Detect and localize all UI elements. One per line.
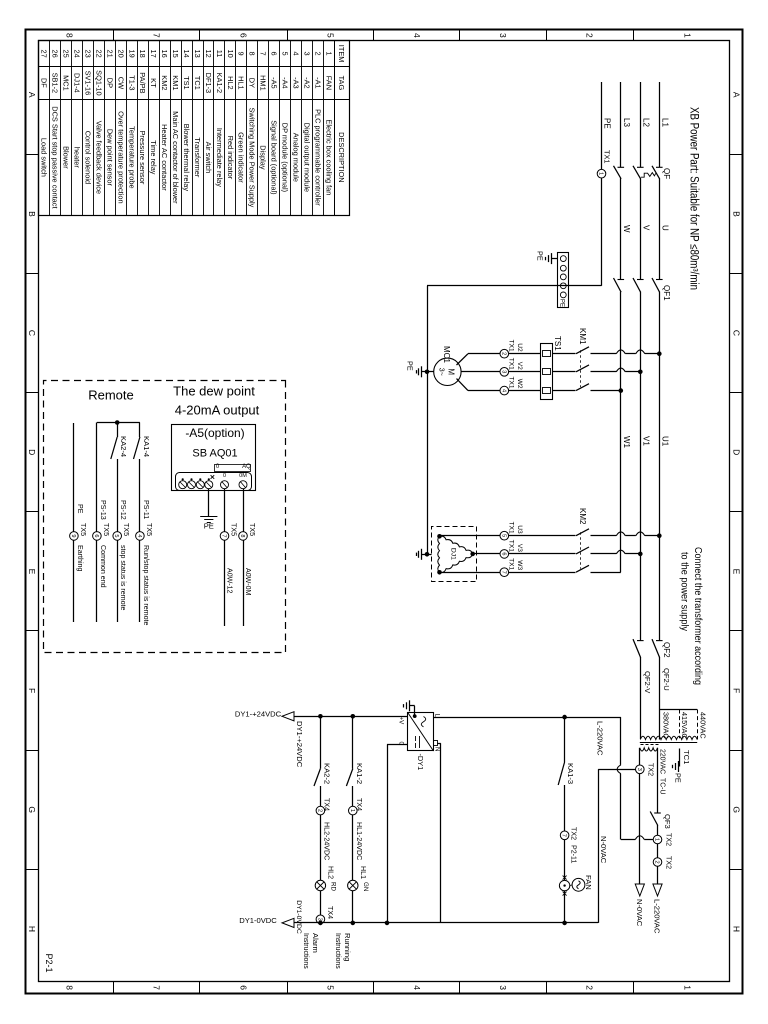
svg-text:-A5(option): -A5(option) (185, 426, 244, 440)
DY1 0V wire down (387, 744, 408, 746)
wire earthing a (73, 423, 75, 532)
junction dot 0V lamp1 (350, 921, 355, 926)
svg-text:5: 5 (326, 985, 336, 990)
svg-text:V3: V3 (516, 544, 523, 552)
svg-text:QF2: QF2 (662, 642, 671, 658)
svg-text:7: 7 (561, 834, 567, 837)
svg-text:2: 2 (654, 860, 660, 863)
svg-text:L-220VAC: L-220VAC (653, 899, 662, 934)
wire KA1-3 a (564, 717, 566, 762)
svg-text:KM1: KM1 (578, 328, 587, 345)
svg-text:TX1: TX1 (508, 340, 515, 352)
svg-text:DY1-0VDC: DY1-0VDC (239, 916, 277, 925)
column dividers (730, 154, 743, 156)
svg-text:Green indicator: Green indicator (237, 132, 246, 183)
svg-text:W1: W1 (622, 436, 631, 449)
svg-text:QF2-U: QF2-U (662, 668, 671, 691)
svg-text:L2: L2 (641, 118, 650, 127)
svg-text:MC1: MC1 (442, 346, 451, 363)
svg-text:TX5: TX5 (230, 523, 238, 536)
transformer core (640, 742, 697, 744)
svg-text:3: 3 (316, 918, 322, 921)
svg-text:TX2: TX2 (647, 763, 655, 776)
branch U2 hop over L2 (636, 350, 645, 354)
svg-text:0: 0 (223, 473, 226, 479)
wire fan to N (564, 891, 566, 923)
breaker QF2 pole U (656, 640, 663, 642)
svg-text:U1: U1 (660, 436, 669, 447)
svg-text:A0W-12: A0W-12 (226, 568, 234, 594)
svg-text:KA1-2: KA1-2 (355, 763, 364, 784)
svg-text:20: 20 (116, 49, 125, 57)
breaker QF pole L2 (637, 166, 644, 168)
terminal TX5-8 (239, 532, 248, 541)
svg-text:Blower thermal relay: Blower thermal relay (182, 124, 191, 192)
svg-text:TX5: TX5 (102, 523, 110, 536)
svg-text:KA1-4: KA1-4 (142, 436, 151, 457)
svg-text:N: N (434, 747, 441, 751)
terminal strip circles (560, 256, 566, 262)
terminal TX1-2 (500, 349, 509, 358)
svg-text:TAG: TAG (337, 76, 346, 91)
wire to motor 2 (461, 371, 500, 373)
motor MC1 circle (434, 358, 461, 385)
svg-text:DY1-+24VDC: DY1-+24VDC (235, 709, 282, 718)
A5 terminal 0 (221, 481, 229, 489)
svg-text:-A3: -A3 (292, 77, 301, 89)
junction dot KA1-3 (562, 715, 567, 720)
terminal TX4 lamp2 (316, 806, 325, 815)
svg-text:A0W-0M: A0W-0M (244, 568, 252, 596)
svg-text:heater: heater (73, 147, 82, 168)
branch U2 wire (645, 353, 660, 355)
svg-text:DY1-+24VDC: DY1-+24VDC (295, 721, 304, 768)
heater DJ1 winding (440, 536, 473, 554)
terminal TX2-2 (653, 858, 662, 867)
remote link (97, 422, 140, 424)
KM1 linkage (580, 350, 582, 387)
junction dot L1-U2 (657, 351, 662, 356)
svg-text:TX4: TX4 (326, 906, 334, 919)
svg-text:U2: U2 (516, 343, 523, 352)
wire 0V rail (294, 922, 441, 924)
wire run status a (139, 423, 141, 438)
svg-text:D: D (731, 449, 741, 455)
svg-text:Display: Display (259, 145, 268, 170)
wire lamp1 d (352, 891, 354, 923)
svg-text:Valve feedback device: Valve feedback device (94, 121, 103, 194)
svg-text:12: 12 (204, 49, 213, 57)
wire KA1-3 b (564, 785, 566, 831)
svg-text:1: 1 (654, 838, 660, 841)
svg-text:Instructions: Instructions (334, 933, 341, 969)
svg-text:19: 19 (127, 49, 136, 57)
relay contact KA2-2 (314, 769, 320, 786)
svg-text:V2: V2 (516, 362, 523, 370)
branch U3 hop over L2 (636, 532, 645, 536)
svg-text:4: 4 (412, 33, 422, 38)
terminal TX5-7 (220, 532, 229, 541)
svg-text:Main AC contactor of blower: Main AC contactor of blower (171, 111, 180, 204)
svg-text:PE: PE (603, 118, 612, 129)
svg-text:E: E (731, 569, 741, 575)
wire N to arrow (639, 774, 641, 884)
svg-text:DF1-3: DF1-3 (204, 73, 213, 94)
svg-text:Electric box cooling fan: Electric box cooling fan (324, 119, 333, 195)
junction dot L3-W2 (619, 388, 624, 393)
junction dot DJ1 PE (425, 552, 430, 557)
svg-text:TX2: TX2 (570, 827, 578, 840)
svg-text:Control solenoid: Control solenoid (84, 131, 93, 184)
A5 PE earth (200, 516, 217, 518)
remote dashed box (44, 381, 286, 653)
svg-text:1: 1 (598, 172, 604, 175)
wire stop status c (117, 540, 119, 622)
arrow N-0VAC (635, 884, 644, 896)
svg-text:4: 4 (412, 985, 422, 990)
DJ1 earth (422, 554, 427, 556)
svg-text:-A4: -A4 (281, 77, 290, 89)
DY1 PE dot (413, 714, 417, 718)
terminal TX1-1 (597, 169, 606, 178)
svg-text:KA1-2: KA1-2 (215, 73, 224, 94)
svg-text:KT: KT (149, 78, 158, 88)
svg-text:P2-1: P2-1 (44, 954, 54, 973)
wire tap 380 (659, 710, 661, 740)
DY1 PE wire (414, 706, 416, 716)
PE line (427, 286, 429, 555)
terminal TX5-5 (113, 532, 122, 541)
svg-text:A: A (731, 92, 741, 98)
wires TS1 to terminals (509, 353, 541, 355)
relay contact KA1-4 (134, 437, 140, 459)
svg-text:HL1: HL1 (237, 76, 246, 90)
svg-text:KM2: KM2 (578, 508, 587, 525)
svg-text:PE: PE (76, 504, 84, 514)
svg-text:Blower: Blower (62, 146, 71, 169)
svg-text:PS-13: PS-13 (99, 500, 107, 520)
svg-text:HL2: HL2 (327, 866, 335, 879)
junction dot 0V return (385, 921, 390, 926)
svg-text:FAN: FAN (324, 76, 333, 90)
svg-text:TX1: TX1 (508, 522, 515, 534)
fan link (570, 884, 572, 887)
lamp HL2 (315, 880, 325, 890)
svg-text:7: 7 (152, 985, 162, 990)
wire AQ 0 out (224, 540, 226, 626)
row dividers (633, 30, 635, 41)
svg-text:XB Power Part: Suitable for NP: XB Power Part: Suitable for NP ≤80m³/min (688, 107, 700, 290)
terminal TX4 lamp2 end (316, 915, 325, 924)
svg-text:PE: PE (536, 251, 545, 261)
svg-text:T1-3: T1-3 (127, 75, 136, 90)
wire PE drop (427, 285, 602, 287)
svg-text:PS-11: PS-11 (142, 500, 150, 519)
svg-text:M: M (447, 369, 456, 376)
svg-text:8: 8 (65, 985, 75, 990)
wire L3 (620, 82, 622, 167)
wire to motor 3 (468, 390, 500, 392)
svg-text:Temperature probe: Temperature probe (127, 126, 136, 188)
svg-text:TX1: TX1 (508, 358, 515, 370)
wire lamp1 b (352, 786, 354, 806)
svg-text:HL2: HL2 (226, 76, 235, 90)
svg-text:22: 22 (94, 49, 103, 57)
svg-text:+V: +V (398, 717, 405, 726)
terminal strip earth (551, 253, 553, 264)
svg-text:2: 2 (585, 985, 595, 990)
svg-text:F: F (27, 688, 37, 693)
svg-text:3: 3 (500, 370, 506, 373)
svg-text:HM1: HM1 (259, 75, 268, 91)
branch U3 wire (645, 535, 660, 537)
svg-text:TX1: TX1 (508, 540, 515, 552)
svg-text:PE: PE (406, 361, 415, 371)
svg-text:GN: GN (362, 882, 369, 891)
N rail horizontal (598, 769, 600, 923)
breaker QF3 (654, 812, 661, 814)
svg-text:C: C (731, 330, 741, 336)
svg-text:Load switch: Load switch (40, 138, 49, 177)
A5 terminal 0M (239, 481, 247, 489)
arrow DY1-0VDC (282, 918, 294, 927)
svg-text:TX1: TX1 (508, 558, 515, 570)
terminal TX1-3 (500, 368, 509, 377)
wire stop status a (117, 423, 119, 438)
svg-text:DJ1-4: DJ1-4 (73, 73, 82, 93)
wire run status b (139, 459, 141, 532)
svg-text:5: 5 (113, 534, 119, 537)
svg-text:PS-12: PS-12 (119, 500, 127, 520)
svg-text:14: 14 (182, 49, 191, 57)
KM2 linkage (580, 532, 582, 569)
contactor KM1 pole 3 (576, 384, 589, 391)
svg-text:L: L (434, 714, 441, 718)
svg-text:5: 5 (500, 534, 506, 537)
svg-text:TX2: TX2 (665, 833, 673, 846)
wires KM2 to terminals (509, 535, 576, 537)
wire 220V live (657, 748, 659, 813)
branch U3 hop over L3 (616, 532, 625, 536)
wire AQ 0M out (243, 540, 245, 626)
breaker QF1 pole L1 (656, 279, 663, 281)
svg-text:3~: 3~ (438, 368, 445, 376)
svg-text:16: 16 (160, 49, 169, 57)
svg-text:Running: Running (343, 933, 352, 961)
svg-text:PA/PB: PA/PB (138, 72, 147, 93)
wire live to arrow (657, 866, 659, 884)
svg-text:CW: CW (116, 77, 125, 89)
L rail down (434, 717, 621, 719)
svg-text:4: 4 (136, 534, 142, 537)
svg-text:stop status is remote: stop status is remote (119, 545, 127, 611)
svg-text:Over temperature protection: Over temperature protection (116, 111, 125, 203)
junction dot L2-V3 (638, 552, 643, 557)
BOM table grid (39, 41, 350, 216)
N branch down (598, 769, 635, 771)
svg-text:415VAC: 415VAC (680, 712, 689, 739)
svg-text:B: B (27, 211, 37, 217)
svg-text:HL2-24VDC: HL2-24VDC (323, 822, 331, 860)
svg-text:W3: W3 (516, 560, 523, 570)
svg-text:Digital output module: Digital output module (302, 123, 311, 192)
breaker QF2 pole V (637, 640, 644, 642)
svg-text:15: 15 (171, 49, 180, 57)
terminal TX2-1 (653, 835, 662, 844)
svg-text:2: 2 (313, 52, 322, 56)
svg-text:Connect the transformer accord: Connect the transformer according (692, 547, 703, 685)
wire lamp2 d (320, 891, 322, 915)
svg-text:8: 8 (65, 33, 75, 38)
terminal TX1-6 (500, 550, 509, 559)
svg-text:1: 1 (324, 52, 333, 56)
svg-text:RD: RD (330, 882, 337, 891)
junction dot lamp2 (318, 714, 323, 719)
DY1 N pin (434, 741, 438, 746)
wire to DJ1 corner1 (440, 535, 501, 537)
svg-text:Run/stop status is remote: Run/stop status is remote (142, 545, 150, 625)
wire lamp2 b (320, 786, 322, 806)
svg-text:Red indicator: Red indicator (226, 136, 235, 180)
wire common a (96, 423, 98, 532)
junction dot L1-U3 (657, 533, 662, 538)
svg-text:KA2-2: KA2-2 (323, 763, 332, 784)
svg-text:7: 7 (152, 33, 162, 38)
junction dot L2-V2 (638, 370, 643, 375)
transformer core dashed (640, 744, 659, 746)
N rail down (441, 922, 598, 924)
wire QF2-V (640, 657, 642, 739)
TC1 screen earth (679, 749, 681, 767)
svg-text:9: 9 (237, 52, 246, 56)
svg-text:KM1: KM1 (171, 75, 180, 90)
relay contact KA2-4 (111, 437, 117, 459)
svg-text:8: 8 (239, 534, 245, 537)
svg-text:10: 10 (226, 49, 235, 57)
svg-text:TX5: TX5 (145, 523, 153, 536)
svg-text:P2-11: P2-11 (570, 845, 578, 863)
svg-text:H: H (27, 926, 37, 932)
svg-text:Remote: Remote (88, 388, 134, 403)
svg-text:Earthing: Earthing (76, 545, 84, 571)
svg-text:SQ1-10: SQ1-10 (94, 70, 103, 95)
terminal TX2-7 (560, 831, 569, 840)
svg-text:2: 2 (316, 809, 322, 812)
svg-text:QF: QF (662, 168, 671, 179)
svg-text:W2: W2 (516, 379, 523, 389)
svg-text:Pressure sensor: Pressure sensor (138, 130, 147, 184)
DJ1 earth stub (427, 554, 432, 556)
branch V3 hop over L3 (616, 550, 625, 554)
svg-text:17: 17 (149, 49, 158, 57)
svg-text:A: A (27, 92, 37, 98)
wire AQ 0 (224, 489, 226, 532)
svg-text:-A1: -A1 (313, 77, 322, 89)
svg-text:KA1-3: KA1-3 (566, 763, 575, 784)
transformer TC1 primary (640, 736, 697, 739)
tap 440 dashed (697, 710, 699, 740)
motor earth stub (427, 371, 434, 373)
wire L3 after QF1 (620, 292, 622, 573)
svg-text:G: G (27, 806, 37, 813)
svg-text:DY1-0VDC: DY1-0VDC (295, 900, 302, 934)
contactor KM2 pole 1 (576, 529, 589, 536)
A5 label strip (215, 465, 251, 472)
svg-text:Dew point sensor: Dew point sensor (105, 129, 114, 187)
power supply DY1 box (408, 713, 434, 751)
wire L2 after QF1 (640, 292, 642, 641)
DY1 diagonal (408, 712, 434, 751)
wire L2 after QF (640, 178, 642, 279)
terminal strip earth stub (551, 258, 558, 260)
svg-text:Time relay: Time relay (149, 140, 158, 175)
svg-text:220VAC: 220VAC (659, 749, 666, 774)
branch W2 wire (591, 390, 621, 392)
lamp HL1 (348, 880, 358, 890)
svg-text:B: B (731, 211, 741, 217)
junction dot lamp1 (350, 714, 355, 719)
svg-text:11: 11 (215, 50, 224, 58)
svg-text:DP: DP (105, 78, 114, 88)
svg-text:DY: DY (248, 78, 257, 88)
svg-text:0M: 0M (239, 473, 247, 479)
svg-text:DCS Start stop passive contact: DCS Start stop passive contact (51, 106, 60, 208)
A5 PE mark (211, 475, 215, 479)
svg-text:DP module (optional): DP module (optional) (281, 123, 290, 192)
svg-text:to the power supply: to the power supply (679, 552, 690, 631)
wire to fan (564, 840, 566, 881)
arrow DY1-+24VDC (282, 712, 294, 721)
svg-text:Air switch: Air switch (204, 142, 213, 174)
TS1 elements (543, 351, 551, 357)
svg-text:26: 26 (51, 49, 60, 57)
DY1 PE earth (409, 700, 411, 711)
svg-text:TC-U: TC-U (659, 778, 666, 794)
svg-text:The dew point: The dew point (173, 384, 255, 399)
wire to DJ1 apex (473, 553, 500, 555)
svg-text:9: 9 (70, 534, 76, 537)
relay contact KA1-2 (346, 769, 352, 786)
wire lamp1 c (352, 815, 354, 880)
svg-text:HL1-24VDC: HL1-24VDC (355, 822, 363, 860)
svg-text:SB AQ01: SB AQ01 (192, 448, 237, 460)
svg-text:QF2-V: QF2-V (643, 671, 652, 694)
svg-text:440VAC: 440VAC (699, 712, 708, 739)
svg-text:13: 13 (193, 49, 202, 57)
fan symbol (572, 878, 585, 891)
svg-text:1: 1 (683, 985, 693, 990)
svg-text:DESCRIPTION: DESCRIPTION (337, 132, 346, 183)
svg-text:MC1: MC1 (62, 75, 71, 91)
svg-text:6: 6 (93, 534, 99, 537)
svg-text:U3: U3 (516, 525, 523, 534)
svg-text:3: 3 (302, 52, 311, 56)
terminal TX5-9 (70, 532, 79, 541)
svg-text:7: 7 (500, 571, 506, 574)
wire live to TX2 (657, 825, 659, 835)
svg-text:5: 5 (281, 52, 290, 56)
svg-text:FAN: FAN (584, 875, 593, 890)
svg-text:TS1: TS1 (182, 76, 191, 90)
svg-text:DJ1: DJ1 (450, 548, 457, 560)
svg-text:Intermediate relay: Intermediate relay (215, 128, 224, 187)
svg-text:5: 5 (326, 33, 336, 38)
svg-text:6: 6 (500, 552, 506, 555)
wire L2 (640, 82, 642, 167)
svg-text:21: 21 (105, 49, 114, 57)
svg-text:4: 4 (292, 52, 301, 56)
breaker QF pole L3 (618, 166, 625, 168)
